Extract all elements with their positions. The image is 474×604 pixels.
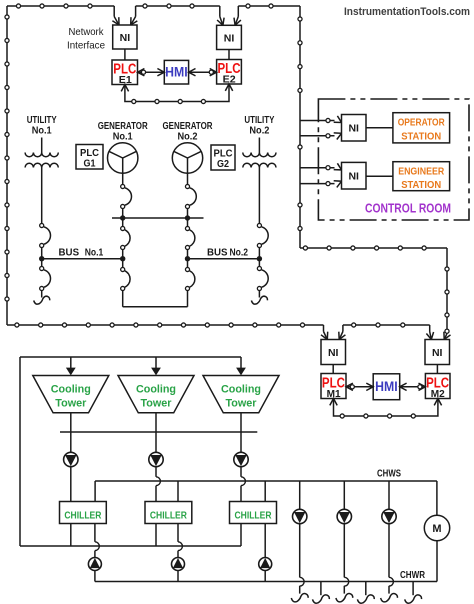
junction: gen 1 bus tap xyxy=(120,256,125,261)
controller PLC E2 xyxy=(217,60,242,86)
label: BUS No.2 xyxy=(207,248,248,259)
wire: pump 3 to CHWR xyxy=(264,571,266,582)
node on PLC M1 HMI link xyxy=(350,385,354,389)
svg-text:ENGINEER: ENGINEER xyxy=(398,165,444,177)
wire: CHWS load drop 3 upper xyxy=(388,481,390,509)
wire: plant network trunk bottom segment (left of NI M1) xyxy=(7,324,324,326)
control room dashed boundary xyxy=(318,99,469,220)
wire: chiller 1 supply riser xyxy=(94,481,96,502)
wire: utility 1 load stub xyxy=(41,291,43,298)
svg-text:No.1: No.1 xyxy=(113,131,133,142)
svg-text:CHWR: CHWR xyxy=(400,570,426,581)
wire: BUS No.1 xyxy=(42,258,123,260)
svg-text:G2: G2 xyxy=(217,159,229,170)
breaker utility 1 feeder xyxy=(40,266,51,290)
wire: chiller 1 evap to pump xyxy=(94,524,96,558)
wire: NI E2 to PLC E2 xyxy=(228,50,230,60)
wire: utility 2 feeder below bus xyxy=(258,259,260,266)
node marker above NI M2 arrow xyxy=(445,329,449,333)
controller PLC E1 xyxy=(112,60,138,86)
label: UTILITY No.2 xyxy=(244,115,274,137)
node markers on mid segment xyxy=(303,246,426,250)
wire: CHWS load drop 2 upper xyxy=(343,481,345,509)
wire: chilled water supply CHWS xyxy=(95,480,437,482)
operator interface HMI M xyxy=(373,374,400,400)
wire: chiller 2 supply riser xyxy=(177,481,179,502)
wire hop load drop 1 over CHWR xyxy=(300,577,304,586)
wire: utility 2 feeder to breaker xyxy=(258,168,260,224)
watermark: InstrumentationTools.com xyxy=(344,6,470,18)
wire: PLC M1 to HMI link xyxy=(346,383,373,390)
condenser water pump 2 xyxy=(149,452,163,466)
operator interface HMI E xyxy=(164,60,188,84)
chilled water pump 3 xyxy=(259,558,272,571)
wire: CHWS load drop 1 upper xyxy=(299,481,301,509)
wire: gen 2 breaker B to bus xyxy=(187,250,189,259)
node on HMI PLC M2 link xyxy=(418,385,422,389)
svg-text:Cooling: Cooling xyxy=(136,384,176,396)
wire: load branch 3 below CHWR xyxy=(388,586,390,594)
wire: network branch to NI OS upper xyxy=(300,116,342,123)
junction: utility 2 bus tap xyxy=(257,256,262,261)
wire: motor M to CHWR xyxy=(436,541,438,582)
node markers on top trunk xyxy=(16,4,273,8)
node markers on NI M2 drop xyxy=(445,267,449,317)
svg-text:OPERATOR: OPERATOR xyxy=(398,117,445,129)
svg-text:HMI: HMI xyxy=(375,379,398,394)
wire: gen 1 to bottom tie xyxy=(122,291,124,307)
cooling tower 1 xyxy=(33,376,109,413)
wire: network drop into NI M1 left xyxy=(321,325,328,340)
svg-text:M: M xyxy=(432,523,441,535)
wire: pump 2 to CHWR xyxy=(177,571,179,582)
network interface NI M2 xyxy=(425,340,450,365)
wire: utility 2 breaker to bus xyxy=(258,248,260,259)
node markers on peer link xyxy=(132,99,206,103)
svg-text:PLC: PLC xyxy=(80,148,99,159)
wire: NI E1 to PLC E1 xyxy=(124,49,126,60)
svg-text:STATION: STATION xyxy=(401,130,441,142)
wire: condenser pump 2 to chiller 2 xyxy=(155,467,157,502)
svg-text:NI: NI xyxy=(432,347,443,359)
wire: network drop into NI M2 right xyxy=(444,332,451,340)
motor M xyxy=(424,515,449,540)
controller PLC M2 xyxy=(425,374,450,400)
wire: chiller 1 condenser outlet xyxy=(70,524,72,547)
wire: network drop into NI E1 right xyxy=(131,6,138,25)
svg-text:HMI: HMI xyxy=(165,65,188,80)
label: CHWS xyxy=(377,469,401,480)
svg-text:NI: NI xyxy=(224,32,235,44)
wire: utility 2 primary stub xyxy=(258,138,260,153)
transformer utility No.2 xyxy=(243,153,276,168)
wire: plant network trunk top segment (NI E1 to NI E2) xyxy=(136,5,220,7)
wire: generator paralleling tie xyxy=(112,217,204,219)
wire: chilled water return CHWR xyxy=(95,581,437,583)
wire: BUS No.2 xyxy=(188,258,260,260)
wire: network drop into NI M1 right xyxy=(339,325,346,340)
network interface NI M1 xyxy=(321,340,346,365)
wire: return drop into tower 2 xyxy=(151,357,161,375)
wire: condenser pump 1 to chiller 1 xyxy=(70,467,72,502)
wire: PLC E1 to PLC E2 peer link xyxy=(121,84,233,102)
wire: chiller 2 evap to pump xyxy=(177,524,179,558)
wire: gen 2 to bottom tie xyxy=(187,291,189,307)
generator G2 symbol xyxy=(172,143,202,173)
wire: CHWS load drop 3 lower xyxy=(388,524,390,578)
load pump 1 xyxy=(293,509,307,523)
breaker generator 2 B xyxy=(185,226,194,249)
controller PLC M1 xyxy=(321,374,346,400)
continuation squiggle load branch 2 xyxy=(357,582,374,604)
controller PLC G1 xyxy=(76,145,103,170)
node markers on left trunk xyxy=(5,15,9,301)
wire: CHWS load drop 1 lower xyxy=(299,524,301,578)
network interface NI E1 xyxy=(113,25,137,49)
wire: gen 2 to breaker A xyxy=(187,173,189,184)
wire: chiller 3 evap to pump xyxy=(264,524,266,558)
chiller 3 xyxy=(230,502,277,524)
wire: chiller 2 condenser outlet xyxy=(155,524,157,547)
wire: HMI to PLC M2 link xyxy=(400,383,426,390)
wire: network branch to NI ES lower xyxy=(300,181,342,188)
junction: utility 1 bus tap xyxy=(39,256,44,261)
svg-text:BUS: BUS xyxy=(207,248,228,259)
breaker generator 2 A xyxy=(185,184,196,208)
wire hop load drop 2 over CHWR xyxy=(344,577,348,586)
svg-text:No.1: No.1 xyxy=(32,126,52,137)
svg-text:NI: NI xyxy=(120,32,131,44)
wire: gen 1 tie to breaker B xyxy=(122,218,124,226)
continuation squiggle load branch 3 xyxy=(405,582,422,604)
svg-text:CHILLER: CHILLER xyxy=(235,509,272,521)
load pump 3 xyxy=(382,509,396,523)
controller PLC G2 xyxy=(211,145,235,170)
svg-text:CHWS: CHWS xyxy=(377,469,401,480)
breaker generator 1 B xyxy=(121,226,130,249)
wire: load branch 1 below CHWR xyxy=(299,586,301,594)
label: CONTROL ROOM xyxy=(365,202,451,216)
label: UTILITY No.1 xyxy=(27,115,57,137)
breaker generator 2 C xyxy=(185,267,194,290)
wire: chiller 3 supply riser xyxy=(264,481,266,502)
wire hop chiller 2 evap over collector xyxy=(178,542,182,551)
wire: network drop into NI E2 right xyxy=(234,6,241,25)
cooling tower 3 xyxy=(203,376,279,413)
svg-text:Tower: Tower xyxy=(55,397,87,409)
condenser water pump 3 xyxy=(234,452,248,466)
chiller 2 xyxy=(145,502,192,524)
svg-text:InstrumentationTools.com: InstrumentationTools.com xyxy=(344,6,470,18)
svg-text:No.1: No.1 xyxy=(85,248,104,259)
wire: gen 1 breaker B to bus xyxy=(122,250,124,259)
cooling tower 2 xyxy=(118,376,194,413)
wire: plant network trunk top segment (left of NI E1) xyxy=(7,5,114,7)
wire: bus tie bottom xyxy=(123,306,188,308)
wire: network drop into NI E1 left xyxy=(112,6,119,25)
wire: condenser pump 3 to chiller 3 xyxy=(240,467,242,502)
wire: gen 1 below bus xyxy=(122,259,124,267)
wire: tower 1 outlet xyxy=(70,413,72,432)
breaker generator 1 C xyxy=(121,267,130,290)
wire: plant network trunk top segment (NI E2 to corner) xyxy=(238,5,300,7)
wire: PLC M1 to PLC M2 peer link xyxy=(330,399,442,417)
wire: tower 3 outlet xyxy=(240,413,242,432)
wire hop at CHWS crossing 2 xyxy=(156,477,160,486)
node markers on bottom trunk xyxy=(15,323,405,327)
wire: load branch 2 below CHWR xyxy=(343,586,345,594)
wire: NI M2 to PLC M2 xyxy=(436,365,438,374)
node markers on right trunk xyxy=(298,17,302,231)
continuation squiggle load drop 1 xyxy=(291,594,308,602)
svg-text:No.2: No.2 xyxy=(249,126,269,137)
wire: utility 1 primary stub xyxy=(41,138,43,153)
node on NI ES upper branch xyxy=(326,166,330,170)
node markers on M peer link xyxy=(340,414,415,418)
breaker utility 2 feeder xyxy=(257,266,268,290)
wire: utility 2 load stub xyxy=(258,291,260,298)
wire: gen 1 to breaker A xyxy=(122,173,124,184)
wire: pump 1 to CHWR xyxy=(94,571,96,582)
wire: NI to engineer station xyxy=(366,175,393,177)
wire: return drop into tower 1 xyxy=(66,357,76,375)
continuation squiggle utility 1 feeder xyxy=(34,296,50,304)
wire: gen 2 below bus xyxy=(187,259,189,267)
network interface NI (engineer) xyxy=(342,162,367,189)
label: GENERATOR No.2 xyxy=(163,121,214,142)
wire: network segment control room to chiller plant xyxy=(300,247,447,249)
svg-text:Cooling: Cooling xyxy=(51,384,91,396)
wire: network drop to NI M2 xyxy=(446,248,448,333)
svg-text:Tower: Tower xyxy=(141,397,173,409)
wire: NI M1 to PLC M1 xyxy=(332,365,334,374)
wire: condenser water return header xyxy=(20,356,241,358)
wire: gen 2 breaker A to tie xyxy=(187,209,189,218)
svg-text:Network: Network xyxy=(69,26,105,38)
wire: tower 2 outlet xyxy=(155,413,157,432)
continuation squiggle load branch 1 xyxy=(313,582,330,604)
junction: gen 2 bus tap xyxy=(185,256,190,261)
svg-text:NI: NI xyxy=(348,170,359,182)
svg-text:CONTROL ROOM: CONTROL ROOM xyxy=(365,202,451,216)
wire: utility 1 feeder below bus xyxy=(41,259,43,266)
engineer station box xyxy=(393,162,450,192)
svg-text:G1: G1 xyxy=(84,159,96,170)
junction: gen 2 tie tap xyxy=(185,215,190,220)
node on NI OS upper branch xyxy=(326,118,330,122)
wire: HMI to PLC E2 link xyxy=(189,69,217,76)
network interface NI E2 xyxy=(217,25,242,49)
wire: CHWS to motor M xyxy=(436,481,438,515)
svg-text:CHILLER: CHILLER xyxy=(150,509,187,521)
transformer utility No.1 xyxy=(25,153,58,168)
wire: gen 1 breaker A to tie xyxy=(122,209,124,218)
node on NI ES lower branch xyxy=(326,182,330,186)
wire: chiller 3 condenser outlet xyxy=(240,524,242,547)
chiller 1 xyxy=(60,502,107,524)
svg-text:NI: NI xyxy=(328,347,339,359)
load pump 2 xyxy=(337,509,351,523)
wire: return drop into tower 3 xyxy=(236,357,246,375)
generator G1 symbol xyxy=(108,143,138,173)
svg-text:STATION: STATION xyxy=(401,179,441,191)
network interface NI (operator) xyxy=(342,115,367,142)
svg-text:UTILITY: UTILITY xyxy=(244,115,274,126)
svg-text:Tower: Tower xyxy=(226,397,258,409)
junction: gen 1 tie tap xyxy=(120,215,125,220)
wire: plant network trunk bottom segment (NI M1 to NI M2) xyxy=(343,324,430,326)
wire: utility 1 breaker to bus xyxy=(41,248,43,259)
wire: network drop into NI M2 left xyxy=(426,325,433,340)
wire: plant network trunk left segment xyxy=(6,6,8,325)
svg-text:Interface: Interface xyxy=(67,40,105,52)
wire: header to condenser pump 1 xyxy=(70,432,72,452)
node on HMI PLC E2 link xyxy=(209,70,213,74)
svg-text:CHILLER: CHILLER xyxy=(64,509,101,521)
node on NI OS lower branch xyxy=(326,134,330,138)
node on PLC E1 HMI link xyxy=(141,70,145,74)
label: Network Interface xyxy=(67,26,105,52)
svg-text:PLC: PLC xyxy=(214,149,233,160)
breaker utility 2 main xyxy=(257,223,268,247)
wire: NI to operator station xyxy=(366,127,393,129)
svg-text:NI: NI xyxy=(348,123,359,135)
breaker utility 1 main xyxy=(40,223,51,247)
continuation squiggle utility 2 feeder xyxy=(251,296,267,304)
svg-text:BUS: BUS xyxy=(59,248,80,259)
wire: CHWS load drop 2 lower xyxy=(343,524,345,578)
breaker generator 1 A xyxy=(121,184,132,208)
wire: header to condenser pump 3 xyxy=(240,432,242,452)
continuation squiggle load drop 2 xyxy=(336,594,353,602)
label: GENERATOR No.1 xyxy=(98,121,149,142)
wire: network branch to NI ES upper xyxy=(300,163,342,170)
wire hop at CHWS crossing 3 xyxy=(241,477,245,486)
wire: gen 2 tie to breaker B xyxy=(187,218,189,226)
continuation squiggle load drop 3 xyxy=(381,594,398,602)
svg-text:No.2: No.2 xyxy=(229,248,248,259)
wire: condenser return collector xyxy=(20,545,241,547)
operator station box xyxy=(393,113,450,143)
wire hop load drop 3 over CHWR xyxy=(389,577,393,586)
chilled water pump 2 xyxy=(172,558,185,571)
wire: condenser water return riser xyxy=(19,357,21,546)
label: CHWR xyxy=(400,570,426,581)
wire: network trunk right vertical to control room xyxy=(299,6,301,248)
wire: utility 1 feeder to breaker xyxy=(41,168,43,224)
wire: header to condenser pump 2 xyxy=(155,432,157,452)
chilled water pump 1 xyxy=(88,558,101,571)
wire: PLC E1 to HMI link xyxy=(138,69,165,76)
svg-text:UTILITY: UTILITY xyxy=(27,115,57,126)
wire: network drop into NI E2 left xyxy=(217,6,224,25)
svg-text:No.2: No.2 xyxy=(178,131,198,142)
wire: condenser supply header xyxy=(60,431,257,433)
wire: network branch to NI OS lower xyxy=(300,133,342,140)
label: BUS No.1 xyxy=(59,248,104,259)
condenser water pump 1 xyxy=(64,452,78,466)
wire hop chiller 1 evap over collector xyxy=(95,542,99,551)
svg-text:Cooling: Cooling xyxy=(221,384,261,396)
